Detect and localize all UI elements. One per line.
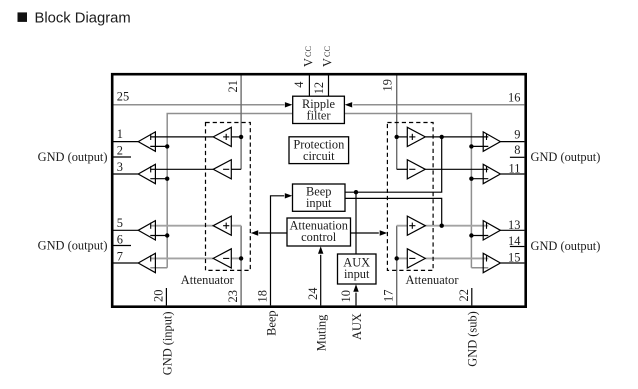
wire reference right branch xyxy=(344,114,471,268)
svg-text:1: 1 xyxy=(117,127,123,141)
attenuator box left dashed xyxy=(206,123,251,271)
junction node buffer B inv xyxy=(165,177,169,181)
op-amp buffer F pin11 xyxy=(483,164,500,183)
svg-text:11: 11 xyxy=(508,162,520,176)
wire row4 left attenuator input xyxy=(231,257,241,259)
svg-text:5: 5 xyxy=(117,216,123,230)
op-amp buffer A pin1 xyxy=(138,132,155,151)
wire beep top branch xyxy=(345,137,442,192)
wire pin20 tick xyxy=(165,288,167,305)
IC boundary box xyxy=(112,74,526,307)
svg-text:9: 9 xyxy=(514,128,520,142)
wire buffer H inverting stub xyxy=(471,267,488,269)
svg-text:3: 3 xyxy=(117,160,123,174)
wire pin21 attenuator column xyxy=(240,76,242,170)
wire aux to beep line xyxy=(355,192,357,254)
svg-text:16: 16 xyxy=(508,91,520,105)
wire pin15 output xyxy=(500,262,524,264)
block beep input xyxy=(293,184,346,211)
wire pin7 output xyxy=(114,262,139,264)
wire row2 right signal xyxy=(425,168,488,170)
junction node col21 row1 xyxy=(239,135,243,139)
svg-text:6: 6 xyxy=(117,233,123,247)
svg-text:GND (output): GND (output) xyxy=(531,150,601,164)
svg-text:4: 4 xyxy=(292,82,306,88)
op-amp buffer E pin9 xyxy=(483,132,500,151)
svg-text:20: 20 xyxy=(151,290,165,302)
junction node buffer E inv xyxy=(469,144,473,148)
op-amp buffer H pin15 xyxy=(483,253,500,272)
wire row3 right signal xyxy=(425,225,488,227)
wire beep bottom branch xyxy=(345,198,442,225)
junction node buffer A inv xyxy=(165,144,169,148)
svg-text:19: 19 xyxy=(380,79,394,91)
junction node buffer G inv xyxy=(469,233,473,237)
svg-text:GND (output): GND (output) xyxy=(38,238,108,252)
wire pin22 tick xyxy=(471,288,473,305)
svg-text:24: 24 xyxy=(306,288,320,300)
wire pin10 aux xyxy=(353,284,358,305)
junction node beep bottom xyxy=(440,224,444,228)
wire pin19 attenuator column xyxy=(396,76,398,170)
wire row1 left signal xyxy=(150,136,213,138)
wire row2 right attenuator input xyxy=(397,168,408,170)
wire pin18 beep xyxy=(271,193,293,305)
svg-text:Muting: Muting xyxy=(315,315,329,352)
junction node col23 row4 xyxy=(239,256,243,260)
wire pin9 output xyxy=(500,141,524,143)
svg-text:input: input xyxy=(306,196,332,210)
wire row2 left attenuator input xyxy=(231,168,241,170)
block ripple filter xyxy=(293,96,345,123)
wire buffer F inverting stub xyxy=(471,178,488,180)
wire attenuation control to right attenuator xyxy=(351,230,388,235)
svg-text:14: 14 xyxy=(508,234,520,248)
op-amp attenuator cell 2 right xyxy=(407,160,425,179)
op-amp buffer G pin13 xyxy=(483,221,500,240)
wire row3 left attenuator input xyxy=(231,225,241,227)
wire row4 right attenuator input xyxy=(397,257,408,259)
junction node buffer C inv xyxy=(165,233,169,237)
wire reference left branch xyxy=(167,114,293,268)
wire row1 right signal xyxy=(425,136,488,138)
svg-text:10: 10 xyxy=(339,290,353,302)
wire pin1 output xyxy=(114,141,139,143)
op-amp buffer C pin5 xyxy=(138,221,155,240)
wire pin16 to ripple filter xyxy=(345,102,525,107)
junction node aux beep xyxy=(354,190,358,194)
wire row3 left signal xyxy=(150,225,213,227)
svg-text:GND (output): GND (output) xyxy=(531,239,601,253)
svg-text:8: 8 xyxy=(514,143,520,157)
op-amp attenuator cell 3 right xyxy=(407,216,425,235)
op-amp buffer D pin7 xyxy=(138,253,155,272)
wire pin17 attenuator column xyxy=(396,226,398,306)
svg-text:17: 17 xyxy=(382,290,396,302)
svg-text:15: 15 xyxy=(508,251,520,265)
junction node col19 row1 xyxy=(395,135,399,139)
wire row2 left signal xyxy=(150,168,213,170)
op-amp attenuator cell 3 left xyxy=(213,216,231,235)
svg-text:control: control xyxy=(301,230,337,244)
wire pin13 output xyxy=(500,229,524,231)
svg-text:Beep: Beep xyxy=(264,310,278,335)
block aux input xyxy=(338,254,377,284)
wire pin4 Vcc xyxy=(308,76,310,97)
svg-text:filter: filter xyxy=(306,108,331,122)
junction node beep top xyxy=(440,135,444,139)
op-amp attenuator cell 4 right xyxy=(407,249,425,268)
op-amp attenuator cell 1 right xyxy=(407,127,425,146)
junction node col17 row4 xyxy=(395,256,399,260)
wire row4 right signal xyxy=(425,257,488,259)
wire pin24 muting xyxy=(318,246,323,305)
op-amp buffer B pin3 xyxy=(138,164,155,183)
wire buffer E inverting stub xyxy=(471,145,488,147)
svg-text:circuit: circuit xyxy=(303,149,335,163)
svg-text:18: 18 xyxy=(256,290,270,302)
wire pin14 gnd stub xyxy=(510,246,525,248)
svg-text:AUX: AUX xyxy=(350,313,364,340)
op-amp attenuator cell 4 left xyxy=(213,249,231,268)
title Block Diagram xyxy=(18,11,131,27)
svg-text:21: 21 xyxy=(226,80,240,92)
svg-text:Attenuator: Attenuator xyxy=(181,273,235,287)
wire buffer B inverting stub xyxy=(150,178,167,180)
wire pin6 gnd stub xyxy=(114,245,132,247)
svg-text:23: 23 xyxy=(226,290,240,302)
wire pin5 output xyxy=(114,229,139,231)
svg-text:GND (input): GND (input) xyxy=(160,312,174,376)
wire buffer D inverting stub xyxy=(150,267,167,269)
attenuator box right dashed xyxy=(387,123,433,271)
wire attenuation control to left attenuator xyxy=(251,230,287,235)
svg-text:13: 13 xyxy=(508,218,520,232)
wire pin3 output xyxy=(114,173,139,175)
wire pin2 gnd stub xyxy=(114,156,132,158)
wire pin12 Vcc xyxy=(328,76,330,97)
op-amp attenuator cell 1 left xyxy=(213,127,231,146)
block attenuation control xyxy=(287,218,351,246)
svg-text:input: input xyxy=(344,267,370,281)
wire pin11 output xyxy=(500,173,524,175)
wire row1 left attenuator input xyxy=(231,136,241,138)
svg-text:7: 7 xyxy=(117,250,123,264)
wire row1 right attenuator input xyxy=(397,136,408,138)
op-amp attenuator cell 2 left xyxy=(213,160,231,179)
wire pin25 to ripple filter xyxy=(114,102,293,107)
svg-text:22: 22 xyxy=(457,289,471,301)
wire buffer A inverting stub xyxy=(150,145,167,147)
wire row4 left signal xyxy=(150,257,213,259)
svg-text:Block Diagram: Block Diagram xyxy=(35,11,131,27)
svg-text:GND (sub): GND (sub) xyxy=(466,311,480,366)
wire pin8 gnd stub xyxy=(510,156,525,158)
svg-text:25: 25 xyxy=(117,90,129,104)
wire pin23 attenuator column xyxy=(240,226,242,306)
block protection circuit xyxy=(289,137,349,164)
wire buffer G inverting stub xyxy=(471,235,488,237)
wire buffer C inverting stub xyxy=(150,235,167,237)
svg-text:2: 2 xyxy=(117,144,123,158)
svg-text:12: 12 xyxy=(312,82,326,94)
svg-text:GND (output): GND (output) xyxy=(38,150,108,164)
svg-text:Attenuator: Attenuator xyxy=(406,273,460,287)
wire row3 right attenuator input xyxy=(397,225,408,227)
junction node buffer F inv xyxy=(469,177,473,181)
